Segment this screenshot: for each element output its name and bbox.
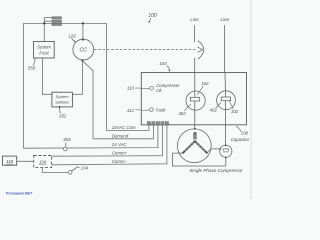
- svg-text:104: 104: [159, 61, 167, 66]
- page edge line right: [250, 0, 252, 199]
- svg-text:CC: CC: [80, 48, 88, 54]
- capacitor node dots: [225, 144, 227, 146]
- junction node at top bus / frost feed: [43, 22, 45, 24]
- svg-text:Comm+: Comm+: [112, 151, 128, 156]
- wire line1 upper segment: [194, 25, 196, 42]
- contactor contact arc: [198, 41, 204, 60]
- svg-text:102: 102: [231, 109, 239, 114]
- svg-text:Capacitor: Capacitor: [231, 137, 250, 142]
- protector circle right 102: [217, 91, 236, 110]
- svg-text:110: 110: [127, 86, 135, 91]
- wire connector J1 mid pin stub: [44, 20, 52, 22]
- motor circle: [177, 129, 211, 163]
- switch 134 blade: [68, 171, 72, 175]
- svg-text:402: 402: [210, 107, 218, 112]
- connector J1 pin middle: [52, 20, 62, 22]
- svg-text:Fault: Fault: [156, 108, 166, 113]
- motor winding right bar: [195, 141, 207, 153]
- svg-text:Single Phase Compressor: Single Phase Compressor: [189, 168, 243, 173]
- svg-text:106: 106: [241, 130, 249, 135]
- wire outer left edge: [22, 23, 24, 148]
- svg-text:Comm−: Comm−: [112, 159, 128, 164]
- svg-text:402: 402: [178, 111, 186, 116]
- wire CC bottom diagonal to demand drop: [83, 61, 93, 139]
- linkage dashed from CC: [94, 48, 196, 50]
- connector J1 pin bottom: [52, 23, 62, 25]
- svg-text:118: 118: [6, 159, 14, 164]
- wire 104 box to switch 134: [42, 168, 68, 173]
- wire demand line: [93, 125, 153, 139]
- svg-text:Frost: Frost: [39, 50, 49, 55]
- wire 24VAC Com drop and line: [107, 23, 149, 130]
- indicator fault: [149, 108, 153, 112]
- junction node CC coil bottom: [81, 59, 83, 61]
- wire 118 to 104: [17, 160, 34, 162]
- box 118: [3, 156, 17, 165]
- motor terminal dots: [194, 128, 196, 130]
- compressor unit box: [141, 73, 246, 125]
- linkage arrowhead: [197, 47, 202, 52]
- svg-text:Line: Line: [221, 17, 230, 22]
- svg-text:System: System: [37, 44, 51, 49]
- connector J2 pins on box bottom: [147, 122, 168, 126]
- indicator compressor ok: [150, 86, 154, 90]
- svg-text:Pressauto.NET: Pressauto.NET: [6, 192, 33, 196]
- wire top bus: [23, 22, 106, 24]
- motor winding left bar: [183, 141, 195, 153]
- capacitor bottom plate: [223, 151, 229, 153]
- wire comm- line: [52, 125, 167, 165]
- wire 24VAC line: [23, 125, 158, 148]
- svg-text:System: System: [56, 94, 70, 99]
- capacitor circle: [220, 145, 232, 157]
- svg-text:404: 404: [63, 137, 71, 142]
- svg-text:352: 352: [59, 114, 67, 119]
- wire CC bottom to safeties loop: [72, 60, 82, 94]
- svg-text:Safeties: Safeties: [55, 100, 69, 105]
- wire line1 lower segment through protector to motor: [194, 58, 196, 129]
- motor winding top bar: [194, 133, 197, 139]
- box 104 dashed: [34, 156, 52, 168]
- box system frost: [34, 42, 55, 59]
- svg-text:120: 120: [68, 34, 76, 39]
- capacitor top plate: [223, 149, 228, 151]
- wire frost box top feed: [43, 23, 45, 41]
- svg-text:Demand: Demand: [112, 134, 129, 139]
- svg-text:104: 104: [39, 160, 47, 165]
- svg-text:Ok: Ok: [156, 88, 162, 93]
- junction node at top bus / CC feed: [82, 22, 84, 24]
- contactor coil CC: [73, 39, 94, 60]
- box system safeties: [52, 92, 73, 107]
- wire comm+ line: [52, 125, 163, 156]
- svg-text:112: 112: [127, 108, 135, 113]
- wire frost box bottom to safeties left: [42, 58, 52, 94]
- svg-text:Line: Line: [190, 17, 199, 22]
- wire connector J1 top pin L-link: [44, 18, 52, 24]
- svg-text:134: 134: [81, 166, 89, 171]
- wire motor left terminal loop to capacitor bottom: [172, 153, 225, 166]
- wire top bus to CC coil: [82, 23, 84, 39]
- wire line2 down to capacitor: [224, 25, 227, 145]
- wire motor right terminal to capacitor left: [207, 149, 220, 153]
- svg-text:100: 100: [148, 13, 157, 19]
- node 404: [64, 147, 68, 151]
- svg-text:350: 350: [28, 66, 36, 71]
- svg-text:102: 102: [201, 81, 209, 86]
- connector J1 pin top: [52, 17, 62, 19]
- svg-text:24VAC Com: 24VAC Com: [111, 125, 136, 130]
- junction node CC coil top: [82, 38, 84, 40]
- svg-text:24 VAC: 24 VAC: [111, 142, 127, 147]
- paper background: [0, 0, 254, 199]
- protector circle left 102: [186, 91, 205, 110]
